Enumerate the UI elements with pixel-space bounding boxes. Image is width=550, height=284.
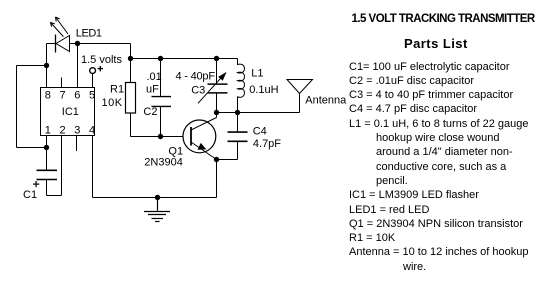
svg-text:LED1: LED1	[76, 28, 102, 40]
svg-text:1.5 volts: 1.5 volts	[81, 54, 122, 66]
wire node-A horizontal	[17, 65, 47, 67]
title	[352, 13, 535, 25]
wire C4 top lead	[237, 113, 239, 132]
svg-text:4.7pF: 4.7pF	[253, 138, 281, 150]
svg-text:4 - 40pF: 4 - 40pF	[176, 71, 216, 83]
parts list	[349, 60, 529, 274]
svg-text:4: 4	[89, 125, 95, 137]
wire corner drop to rail	[130, 44, 132, 59]
node ground junction	[155, 195, 160, 200]
node base junction	[158, 134, 163, 139]
wire C1 top lead	[46, 148, 48, 170]
wire LED cathode to bar	[47, 43, 56, 45]
antenna	[287, 80, 313, 94]
wire C1 bottom lead	[46, 180, 48, 195]
svg-text:L1: L1	[251, 68, 263, 80]
node collector junction	[214, 110, 219, 115]
svg-text:IC1: IC1	[62, 106, 79, 118]
wire to C1 node	[17, 147, 47, 149]
wire R1 bottom lead	[130, 113, 132, 137]
wire IC pin 4 drop	[92, 136, 94, 198]
wire left bus down	[16, 66, 18, 148]
svg-text:0.1uH: 0.1uH	[249, 84, 278, 96]
resistor R1	[126, 83, 136, 114]
wire IC pin 7 stub	[61, 78, 63, 88]
wire C2 bottom lead	[160, 107, 162, 137]
transistor Q1 2N3904	[183, 113, 217, 160]
battery terminal 1.5 volts	[90, 66, 103, 74]
wire LED cathode drop	[46, 44, 48, 66]
wire C1 bottom hook	[47, 195, 62, 197]
node C2 top junction	[158, 56, 163, 61]
wire C3 bottom lead	[216, 93, 218, 112]
wire antenna riser	[299, 94, 301, 113]
wire IC pin 1 stub	[46, 136, 48, 148]
IC U1 LM3909 box	[41, 88, 95, 136]
node C3 top junction	[214, 56, 219, 61]
svg-text:5: 5	[89, 90, 95, 102]
wire emitter to C4	[217, 159, 238, 161]
svg-text:C4: C4	[253, 126, 267, 138]
svg-text:2N3904: 2N3904	[144, 156, 183, 168]
svg-text:8: 8	[45, 90, 51, 102]
wire LED node to R1 corner	[78, 43, 131, 45]
inductor L1	[238, 59, 245, 113]
svg-text:1: 1	[45, 125, 51, 137]
wire IC pin 5 to battery	[92, 74, 94, 88]
svg-text:10K: 10K	[102, 97, 123, 109]
node L1-C4 junction	[235, 110, 240, 115]
svg-text:Antenna: Antenna	[305, 94, 347, 106]
wire base node horizontal	[131, 136, 192, 138]
LED1 red LED	[50, 17, 69, 53]
svg-text:.01: .01	[147, 71, 162, 83]
node C1 top junction	[44, 145, 49, 150]
svg-text:C2: C2	[143, 106, 157, 118]
parts list heading	[404, 36, 468, 51]
wire IC pin 6 to LED node	[77, 44, 79, 88]
wire IC pin 8 stub	[46, 66, 48, 88]
wire emitter drop to ground rail	[216, 160, 218, 198]
capacitor C2	[152, 97, 172, 107]
ground	[144, 198, 170, 222]
svg-text:3: 3	[74, 125, 80, 137]
wire ground rail	[93, 197, 217, 199]
node emitter junction	[214, 157, 219, 162]
wire collector node to antenna	[217, 112, 300, 114]
wire top rail	[131, 58, 238, 60]
svg-text:6: 6	[74, 90, 80, 102]
node LED cathode junction	[44, 63, 49, 68]
svg-text:2: 2	[59, 125, 65, 137]
svg-text:C3: C3	[191, 85, 205, 97]
wire LED anode	[70, 43, 78, 45]
svg-text:7: 7	[59, 90, 65, 102]
node LED anode junction	[75, 41, 80, 46]
wire IC pin 3 stub	[76, 136, 78, 152]
wire C4 bottom lead	[237, 142, 239, 160]
node R1 top junction	[128, 56, 133, 61]
wire IC pin 2 drop	[61, 136, 63, 196]
wire C2 top lead	[160, 59, 162, 97]
svg-text:R1: R1	[110, 83, 124, 95]
wire C3 top lead	[216, 59, 218, 84]
trimmer capacitor C3	[198, 72, 228, 103]
capacitor C4	[228, 132, 248, 141]
svg-text:C1: C1	[23, 189, 37, 201]
capacitor C1 electrolytic	[33, 170, 57, 187]
wire R1 top lead	[130, 59, 132, 83]
svg-text:uF: uF	[146, 83, 159, 95]
